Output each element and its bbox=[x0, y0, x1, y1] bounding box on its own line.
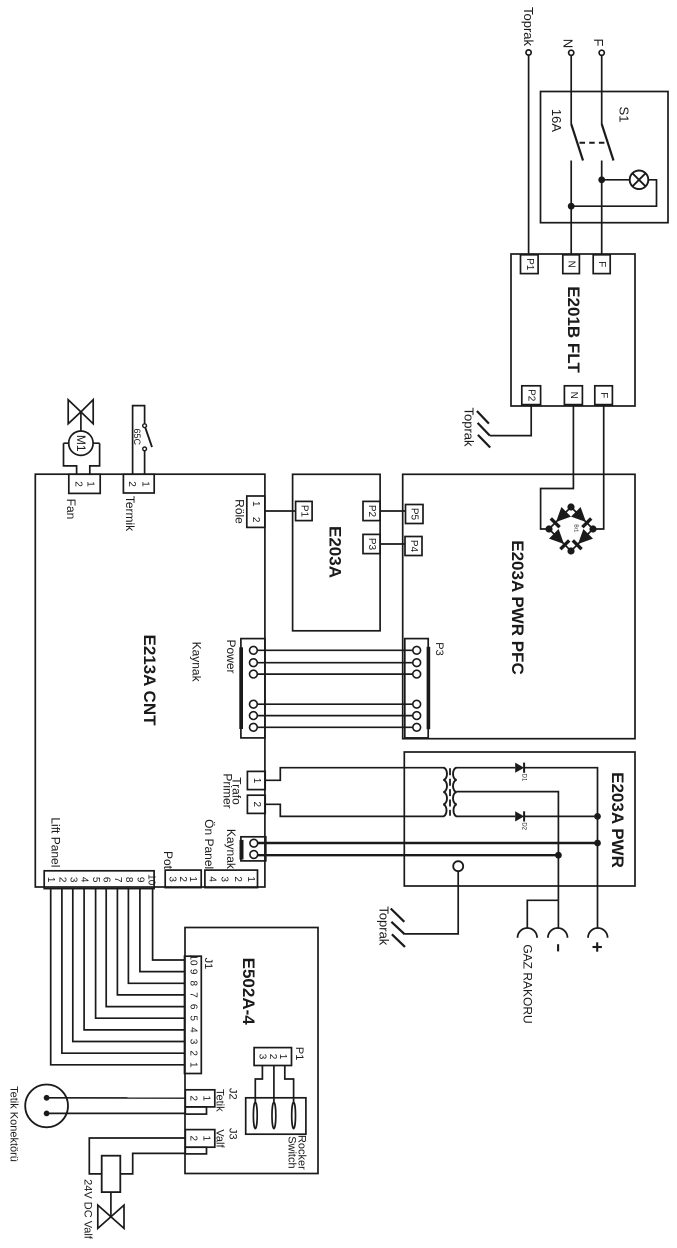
svg-text:1: 1 bbox=[245, 876, 256, 882]
wire (secondary top to D1) bbox=[457, 767, 516, 769]
svg-text:2: 2 bbox=[56, 877, 67, 883]
wire (Lift 4 to J1 4) bbox=[84, 889, 184, 1030]
node Tetik Konektoru (torch connector) bbox=[8, 1085, 68, 1162]
node chassis tap (open circle) bbox=[453, 861, 463, 871]
svg-text:S1: S1 bbox=[617, 107, 632, 123]
wire (Lift 7 to J1 7) bbox=[117, 889, 184, 995]
wire (Power pin5 to P3 pin5) bbox=[257, 715, 413, 717]
wire (Lift 10 to J1 10) bbox=[153, 889, 185, 960]
wire (J3 1 to valve coil) bbox=[89, 1138, 185, 1174]
connector Lift Panel (E213A bottom edge, 10-pin) bbox=[44, 871, 156, 889]
wire (P1 2 to rocker) bbox=[273, 1066, 275, 1103]
svg-text:4: 4 bbox=[79, 877, 90, 883]
svg-text:1: 1 bbox=[139, 481, 150, 487]
connector On Panel (E213A bottom edge) bbox=[205, 870, 258, 888]
svg-text:Lift Panel: Lift Panel bbox=[48, 817, 62, 867]
wire (torch pin to J2 1) bbox=[47, 1097, 186, 1099]
svg-text:E502A-4: E502A-4 bbox=[239, 958, 258, 1026]
svg-text:5: 5 bbox=[188, 1015, 199, 1021]
svg-text:J2: J2 bbox=[226, 1088, 238, 1100]
svg-text:6: 6 bbox=[101, 877, 112, 883]
wire (Lift 5 to J1 5) bbox=[96, 889, 185, 1019]
junction dot (F pole / lamp) bbox=[598, 176, 605, 183]
wire (P1 3 to rocker) bbox=[255, 1066, 262, 1103]
diode D1 bbox=[515, 763, 526, 782]
wire (minus drop) bbox=[557, 900, 559, 928]
wire (Lift 3 to J1 3) bbox=[73, 889, 185, 1042]
svg-text:P3: P3 bbox=[433, 642, 445, 655]
svg-text:Primer: Primer bbox=[220, 773, 234, 808]
svg-text:Termik: Termik bbox=[123, 496, 137, 532]
terminal P4 (PFC left) bbox=[405, 537, 422, 556]
wire (N into switch) bbox=[570, 55, 572, 124]
svg-text:1: 1 bbox=[187, 876, 198, 882]
svg-text:J3: J3 bbox=[226, 1128, 238, 1140]
wire (F into switch) bbox=[601, 55, 603, 124]
svg-text:2: 2 bbox=[267, 1054, 278, 1060]
wire (F to bridge right) bbox=[593, 405, 604, 529]
torch board box E502A-4 bbox=[185, 928, 318, 1174]
svg-text:1: 1 bbox=[201, 1136, 212, 1142]
terminal plus socket bbox=[588, 928, 608, 952]
svg-text:GAZ RAKORU: GAZ RAKORU bbox=[521, 944, 535, 1023]
connector Role (E213A right edge) bbox=[247, 496, 265, 527]
svg-text:Tetik Konektörü: Tetik Konektörü bbox=[8, 1086, 20, 1162]
switch S1 pole F blade bbox=[602, 124, 614, 161]
svg-text:3: 3 bbox=[257, 1054, 268, 1060]
connector Fan (E213A top edge) bbox=[69, 474, 100, 493]
node F (mains phase terminal) bbox=[591, 39, 606, 56]
wire (D2 to + rail) bbox=[524, 815, 597, 817]
svg-text:Toprak: Toprak bbox=[377, 906, 392, 946]
wire (Kaynak pin1 to PWR board) bbox=[258, 842, 598, 844]
svg-text:Ön Panel: Ön Panel bbox=[202, 819, 216, 869]
svg-text:F: F bbox=[598, 392, 609, 398]
svg-text:P3: P3 bbox=[366, 538, 377, 551]
label J2 Tetik bbox=[214, 1088, 239, 1112]
connector J2 Tetik (E502A-4 left edge) bbox=[185, 1090, 215, 1114]
connector J3 Valf (E502A-4 left edge) bbox=[185, 1130, 215, 1154]
junction (Kaynak 2 / centre tap) bbox=[555, 852, 562, 859]
filter U-FLT box E201B FLT bbox=[511, 254, 635, 406]
svg-text:P2: P2 bbox=[366, 505, 377, 518]
svg-text:4: 4 bbox=[188, 1027, 199, 1033]
svg-text:3: 3 bbox=[188, 1039, 199, 1045]
svg-text:4: 4 bbox=[206, 876, 217, 882]
terminal P5 (PFC left) bbox=[406, 505, 424, 524]
wire (J3 2 to valve coil) bbox=[120, 1153, 185, 1174]
svg-text:10: 10 bbox=[188, 954, 199, 966]
wire (earth to P1) bbox=[528, 55, 530, 254]
connector Pot (E213A bottom edge) bbox=[165, 870, 201, 888]
svg-text:7: 7 bbox=[112, 877, 123, 883]
terminal F (E201B top) bbox=[593, 255, 610, 274]
wire (N to bridge left) bbox=[541, 405, 574, 529]
svg-text:10: 10 bbox=[145, 874, 156, 886]
svg-text:2: 2 bbox=[232, 876, 243, 882]
wire (F pole lower) bbox=[601, 161, 603, 255]
terminal minus socket bbox=[548, 928, 568, 951]
wire (P2 to earth) bbox=[490, 405, 531, 436]
svg-text:2: 2 bbox=[126, 481, 137, 487]
svg-text:2: 2 bbox=[188, 1050, 199, 1056]
svg-text:Röle: Röle bbox=[232, 499, 246, 524]
connector P3 (PFC left, 6-pin) bbox=[405, 639, 430, 738]
wire (Power pin1 to P3 pin1) bbox=[257, 649, 413, 651]
svg-text:P1: P1 bbox=[293, 1047, 305, 1060]
svg-text:N: N bbox=[566, 261, 577, 268]
wire (chassis tap to earth) bbox=[405, 871, 458, 934]
svg-text:65C: 65C bbox=[132, 428, 142, 445]
wire (P1 1 to rocker) bbox=[285, 1066, 294, 1103]
svg-text:Kaynak: Kaynak bbox=[224, 829, 238, 870]
svg-text:6: 6 bbox=[188, 1004, 199, 1010]
connector Trafo Primer pin 1 (E213A right edge) bbox=[247, 771, 265, 789]
label J3 Valf bbox=[214, 1128, 239, 1149]
motor M1 (fan motor) bbox=[64, 431, 100, 474]
connector Trafo Primer pin 2 bbox=[247, 795, 265, 813]
terminal P1 (E203A left) bbox=[296, 501, 313, 520]
svg-text:1: 1 bbox=[188, 1062, 199, 1068]
pfc board box E203A PWR PFC bbox=[403, 474, 635, 738]
svg-text:Valf: Valf bbox=[214, 1129, 226, 1148]
wire (Trafo Primer 2 to transformer) bbox=[265, 804, 443, 816]
connector J1 (E502A-4 left edge, 10-pin) bbox=[185, 954, 202, 1073]
node Toprak (mains earth terminal) bbox=[521, 7, 536, 55]
svg-text:M1: M1 bbox=[74, 435, 88, 452]
svg-text:9: 9 bbox=[134, 877, 145, 883]
terminal F (E201B bottom) bbox=[595, 386, 613, 405]
svg-text:1: 1 bbox=[85, 481, 96, 487]
svg-text:Fan: Fan bbox=[64, 499, 78, 520]
wire (Lift 2 to J1 2) bbox=[62, 889, 185, 1054]
wire (P2 to P5) bbox=[380, 510, 405, 512]
connector Kaynak (E213A right edge, 2-pin weld output) bbox=[240, 837, 266, 861]
svg-text:2: 2 bbox=[250, 517, 261, 523]
transformer T1 secondary winding bbox=[453, 768, 457, 817]
svg-text:1: 1 bbox=[250, 501, 261, 507]
svg-text:E201B FLT: E201B FLT bbox=[564, 286, 583, 373]
switch S1 pole N blade bbox=[571, 124, 583, 161]
lamp (neon indicator) bbox=[630, 171, 649, 190]
wire (Kaynak pin2 to PWR board) bbox=[258, 854, 559, 856]
svg-text:J1: J1 bbox=[202, 958, 214, 970]
power board box E203A PWR bbox=[404, 752, 635, 886]
svg-text:7: 7 bbox=[188, 992, 199, 998]
svg-text:Kaynak: Kaynak bbox=[190, 642, 204, 683]
svg-text:D1: D1 bbox=[520, 774, 526, 782]
wire (P3 to P4) bbox=[380, 543, 405, 545]
svg-text:5: 5 bbox=[90, 877, 101, 883]
svg-text:24V DC Valf: 24V DC Valf bbox=[82, 1179, 94, 1240]
svg-text:8: 8 bbox=[188, 981, 199, 987]
svg-text:F: F bbox=[591, 39, 606, 47]
svg-text:P2: P2 bbox=[526, 389, 537, 402]
svg-text:3: 3 bbox=[167, 876, 178, 882]
terminal P2 (E201B bottom) bbox=[522, 386, 541, 405]
wire (Lift 6 to J1 6) bbox=[106, 889, 184, 1007]
wire (Role to E203A P1) bbox=[265, 510, 296, 512]
svg-text:E213A CNT: E213A CNT bbox=[140, 634, 159, 726]
wire (F dot to lamp) bbox=[602, 179, 630, 181]
terminal N (E201B top) bbox=[563, 255, 580, 274]
wire (coil to valve) bbox=[110, 1192, 112, 1217]
svg-text:P1: P1 bbox=[524, 258, 535, 271]
junction dot (N pole / lamp return) bbox=[568, 203, 575, 210]
svg-text:9: 9 bbox=[188, 969, 199, 975]
svg-text:3: 3 bbox=[218, 876, 229, 882]
svg-text:E203A PWR: E203A PWR bbox=[608, 772, 627, 868]
thermal switch 65C (Termik) bbox=[132, 406, 152, 475]
switch Rocker Switch bbox=[246, 1098, 308, 1170]
svg-text:1: 1 bbox=[277, 1054, 288, 1060]
svg-text:E203A PWR PFC: E203A PWR PFC bbox=[508, 540, 527, 674]
valve coil 24V DC Valf bbox=[82, 1156, 121, 1240]
switch S1 box bbox=[541, 92, 669, 223]
diode D2 bbox=[515, 811, 526, 830]
label Trafo Primer bbox=[220, 773, 243, 808]
svg-text:2: 2 bbox=[251, 802, 262, 808]
terminal GAZ RAKORU socket bbox=[518, 928, 538, 1024]
terminal P1 (E201B top) bbox=[521, 255, 539, 274]
wire (Lift 9 to J1 9) bbox=[140, 889, 185, 972]
svg-text:2: 2 bbox=[188, 1096, 199, 1102]
svg-text:Tetik: Tetik bbox=[214, 1089, 226, 1112]
svg-text:Toprak: Toprak bbox=[462, 407, 477, 447]
junction (D2 / + rail) bbox=[594, 813, 601, 820]
wire (Power pin2 to P3 pin2) bbox=[257, 662, 413, 664]
junction (Kaynak 1 / + rail) bbox=[594, 840, 601, 847]
connector Power (E213A right edge, 6-pin) bbox=[239, 639, 265, 738]
terminal P2 (E203A right) bbox=[363, 501, 380, 520]
svg-text:P1: P1 bbox=[298, 505, 309, 518]
wire (Power pin6 to P3 pin6) bbox=[257, 726, 413, 728]
terminal N (E201B bottom) bbox=[564, 386, 582, 405]
transformer T1 core bbox=[449, 768, 451, 816]
main control box E213A CNT bbox=[35, 474, 265, 887]
valve symbol bbox=[98, 1205, 124, 1228]
ground (Toprak chassis symbol at PWR) bbox=[377, 906, 406, 947]
connector P1 (rocker switch) bbox=[254, 1048, 291, 1066]
wire (torch pin to J2 2) bbox=[47, 1112, 186, 1114]
svg-text:2: 2 bbox=[177, 876, 188, 882]
svg-text:D2: D2 bbox=[520, 822, 526, 830]
svg-text:P4: P4 bbox=[408, 540, 419, 553]
svg-text:1: 1 bbox=[45, 877, 56, 883]
svg-text:1: 1 bbox=[201, 1096, 212, 1102]
wire (D1 to + rail) bbox=[524, 768, 597, 929]
svg-text:E203A: E203A bbox=[326, 526, 345, 578]
wire (Power pin4 to P3 pin4) bbox=[257, 703, 413, 705]
switch S1 gang link (dashed) bbox=[580, 142, 606, 144]
control board box E203A bbox=[293, 474, 381, 631]
wire (secondary bottom to D2) bbox=[457, 815, 516, 817]
svg-text:P5: P5 bbox=[409, 508, 420, 521]
svg-text:Br1: Br1 bbox=[573, 524, 579, 532]
fan propeller symbol bbox=[68, 400, 93, 431]
svg-text:16A: 16A bbox=[549, 109, 564, 132]
wire (Lift 8 to J1 8) bbox=[128, 889, 184, 984]
wire (Trafo Primer 1 to transformer) bbox=[265, 768, 443, 781]
ground (Toprak chassis symbol at E201B) bbox=[462, 407, 491, 447]
svg-text:Toprak: Toprak bbox=[521, 7, 536, 47]
svg-text:3: 3 bbox=[67, 877, 78, 883]
svg-text:Power: Power bbox=[224, 639, 238, 673]
wire (lamp to N dot) bbox=[571, 180, 656, 206]
svg-text:F: F bbox=[596, 261, 607, 267]
svg-text:N: N bbox=[560, 39, 575, 48]
svg-text:N: N bbox=[568, 392, 579, 399]
svg-text:8: 8 bbox=[123, 877, 134, 883]
node N (mains neutral terminal) bbox=[560, 39, 575, 56]
bridge rectifier Br1 bbox=[545, 503, 596, 554]
svg-text:2: 2 bbox=[188, 1136, 199, 1142]
svg-text:Pot: Pot bbox=[161, 851, 175, 870]
wire (N pole lower) bbox=[570, 161, 572, 255]
wire (Lift 1 to J1 1) bbox=[51, 889, 185, 1065]
wire (centre tap to gas/minus terminals) bbox=[527, 900, 558, 928]
svg-text:Switch: Switch bbox=[286, 1136, 298, 1168]
terminal P3 (E203A right) bbox=[363, 534, 380, 553]
wire (secondary centre tap) bbox=[457, 792, 559, 901]
connector Termik (E213A top edge) bbox=[123, 474, 154, 493]
svg-text:2: 2 bbox=[73, 481, 84, 487]
transformer T1 primary winding bbox=[443, 768, 447, 817]
svg-text:1: 1 bbox=[251, 778, 262, 784]
wire (Power pin3 to P3 pin3) bbox=[257, 673, 413, 675]
